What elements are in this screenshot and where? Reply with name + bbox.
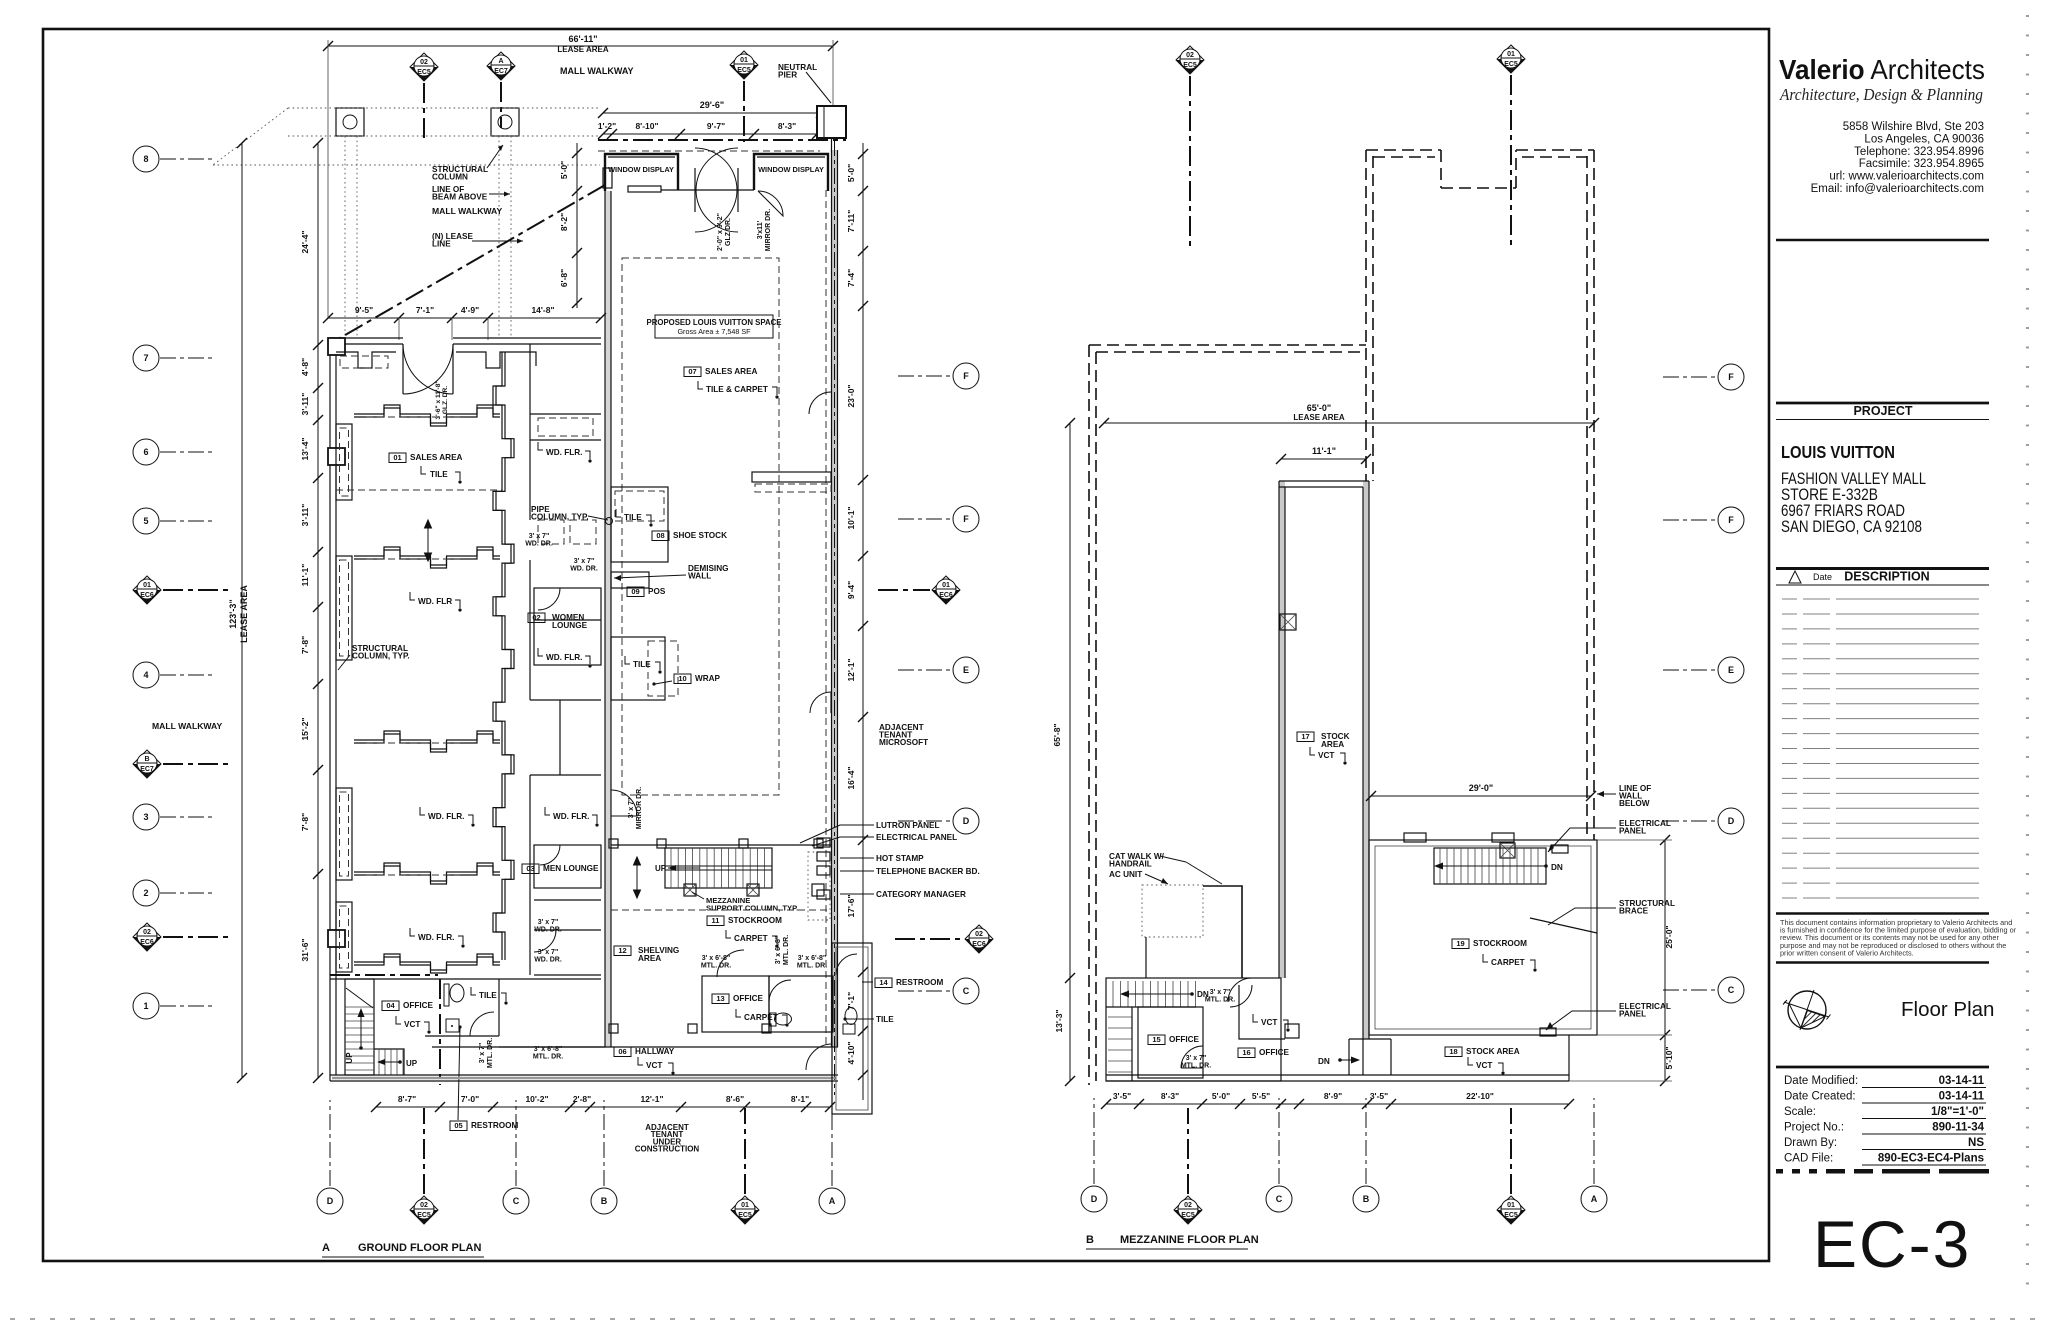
- grid bubble A: [819, 1188, 845, 1214]
- svg-text:SHOE STOCK: SHOE STOCK: [673, 531, 727, 540]
- svg-text:EC7: EC7: [494, 68, 508, 75]
- label 01 sales area: [389, 453, 463, 463]
- interior display wall band mid1: [354, 547, 500, 565]
- svg-text:EC5: EC5: [417, 69, 431, 76]
- svg-text:01: 01: [740, 57, 748, 64]
- svg-text:POS: POS: [648, 587, 666, 596]
- svg-text:CARPET: CARPET: [734, 934, 768, 943]
- svg-text:7'-4": 7'-4": [846, 269, 856, 287]
- svg-text:Telephone: 323.954.8996: Telephone: 323.954.8996: [1854, 146, 1984, 158]
- stair mezz down: [1434, 848, 1546, 884]
- svg-text:65'-0": 65'-0": [1307, 403, 1331, 413]
- label wd.flr 1: [538, 442, 543, 450]
- svg-text:AREA: AREA: [1321, 740, 1344, 749]
- mezzanine edge line: [611, 844, 831, 846]
- corridor wall: [529, 344, 531, 975]
- svg-text:3' x 7": 3' x 7": [538, 919, 559, 926]
- structural column 1: [336, 108, 364, 136]
- svg-text:OFFICE: OFFICE: [733, 994, 764, 1003]
- svg-text:11'-1": 11'-1": [1312, 446, 1336, 456]
- right dimension string: [862, 143, 864, 1100]
- storefront wall / window displays: [605, 154, 828, 191]
- lounge door arcs lower: [534, 930, 556, 952]
- label wd.flr 3: [538, 648, 543, 656]
- svg-text:E: E: [1728, 665, 1734, 675]
- misc closet dashed: [538, 520, 564, 544]
- svg-text:VCT: VCT: [1476, 1061, 1492, 1070]
- svg-text:9'-4": 9'-4": [846, 581, 856, 599]
- heavy lease line storefront: [598, 139, 846, 141]
- grid leader 7: [160, 357, 214, 359]
- svg-text:3' x 6'-8": 3' x 6'-8": [702, 955, 730, 962]
- svg-text:01: 01: [1507, 51, 1515, 58]
- label tile (east top): [625, 656, 630, 664]
- grid bubble 5: [133, 508, 159, 534]
- svg-text:EC7: EC7: [140, 766, 154, 773]
- mezz bottom dimensions: [1106, 1103, 1569, 1105]
- svg-text:CONSTRUCTION: CONSTRUCTION: [635, 1145, 700, 1154]
- svg-text:3'-11": 3'-11": [300, 393, 310, 416]
- svg-text:MIRROR DR.: MIRROR DR.: [636, 787, 643, 829]
- svg-text:Facsimile: 323.954.8965: Facsimile: 323.954.8965: [1859, 158, 1984, 170]
- svg-text:8'-2": 8'-2": [559, 213, 569, 231]
- svg-text:01: 01: [143, 582, 151, 589]
- restroom east small: [769, 976, 833, 1032]
- svg-text:13'-3": 13'-3": [1054, 1009, 1064, 1032]
- west wing exterior walls: [330, 338, 336, 1081]
- svg-text:PANEL: PANEL: [1619, 1009, 1646, 1018]
- svg-text:Date Created:: Date Created:: [1784, 1091, 1856, 1103]
- bottom printer tick strip: [10, 1318, 2035, 1320]
- svg-text:29'-6": 29'-6": [700, 100, 724, 110]
- svg-text:VCT: VCT: [1261, 1018, 1277, 1027]
- svg-text:9'-7": 9'-7": [707, 121, 725, 131]
- svg-text:13'-4": 13'-4": [300, 437, 310, 460]
- grid leader E: [898, 669, 952, 671]
- svg-text:C: C: [1728, 985, 1735, 995]
- svg-text:5'-5": 5'-5": [1252, 1091, 1270, 1101]
- svg-text:RESTROOM: RESTROOM: [471, 1121, 518, 1130]
- bottom exterior wall: [330, 1074, 838, 1076]
- svg-text:D: D: [963, 816, 970, 826]
- label tile: [421, 466, 426, 474]
- svg-text:EC5: EC5: [738, 1212, 752, 1219]
- svg-text:EC6: EC6: [140, 592, 154, 599]
- svg-text:PROJECT: PROJECT: [1853, 404, 1912, 418]
- svg-text:05: 05: [454, 1121, 462, 1130]
- svg-text:COLUMN, TYP.: COLUMN, TYP.: [531, 512, 589, 521]
- label 17 stock area: [1297, 732, 1314, 742]
- section marker B/EC7: [133, 750, 161, 778]
- office 16: [1238, 1048, 1290, 1058]
- entry double doors: [695, 148, 737, 232]
- section marker 01/EC5: [1497, 45, 1525, 73]
- east wall counter fixtures: [752, 472, 831, 482]
- door to adjacent tenant: [810, 692, 831, 713]
- svg-text:03: 03: [526, 864, 534, 873]
- svg-text:66'-11": 66'-11": [569, 34, 598, 44]
- grid bubble 2: [133, 880, 159, 906]
- svg-text:9'-5": 9'-5": [355, 305, 373, 315]
- svg-text:MEN LOUNGE: MEN LOUNGE: [543, 864, 599, 873]
- svg-text:7'-8": 7'-8": [300, 636, 310, 654]
- mirror door: [758, 191, 783, 216]
- svg-text:BRACE: BRACE: [1619, 906, 1649, 915]
- bottom band walls: [330, 974, 438, 976]
- grid bubble 1: [133, 993, 159, 1019]
- grid leader C: [898, 990, 952, 992]
- stair to mezzanine: [665, 848, 772, 888]
- svg-text:8: 8: [143, 154, 148, 164]
- grid bubble F: [953, 506, 979, 532]
- dimension 11'-1: [1281, 458, 1366, 460]
- hallway exit arc: [806, 1044, 832, 1070]
- svg-text:WD. FLR: WD. FLR: [418, 597, 452, 606]
- dimension 25'-0 right: [1664, 840, 1666, 1081]
- grid bubble B: [591, 1188, 617, 1214]
- grid bubble D: [1081, 1186, 1107, 1212]
- section marker A/EC7: [487, 52, 515, 80]
- svg-text:7'-11": 7'-11": [846, 210, 856, 233]
- svg-text:DN: DN: [1551, 863, 1563, 872]
- office 13: [702, 976, 769, 1032]
- grid dashdot x440: [439, 979, 441, 1085]
- interior display wall band mid3: [354, 863, 500, 881]
- floor transition arrows: [425, 520, 432, 561]
- label 14 restroom: [875, 978, 943, 988]
- svg-text:3'-5": 3'-5": [1370, 1091, 1388, 1101]
- svg-text:18: 18: [1449, 1047, 1457, 1056]
- grid bubble F: [953, 363, 979, 389]
- svg-text:WD. DR.: WD. DR.: [525, 540, 553, 547]
- svg-text:D: D: [1728, 816, 1735, 826]
- svg-text:10: 10: [678, 674, 686, 683]
- svg-text:19: 19: [1456, 939, 1464, 948]
- svg-text:5'-10": 5'-10": [1664, 1046, 1674, 1069]
- svg-text:MTL. DR.: MTL. DR.: [701, 962, 731, 969]
- svg-text:B: B: [1086, 1234, 1094, 1246]
- svg-text:TILE: TILE: [624, 513, 642, 522]
- svg-text:8'-7": 8'-7": [398, 1094, 416, 1104]
- svg-text:OFFICE: OFFICE: [403, 1001, 434, 1010]
- svg-text:GLZ. DR.: GLZ. DR.: [442, 386, 449, 414]
- svg-text:A: A: [829, 1196, 836, 1206]
- svg-text:F: F: [963, 514, 969, 524]
- stockroom 19 walls: [1369, 840, 1597, 1035]
- label 19 stockroom: [1452, 939, 1527, 949]
- svg-text:LOUIS VUITTON: LOUIS VUITTON: [1781, 442, 1895, 462]
- mezzanine support columns: [684, 884, 696, 896]
- svg-text:TELEPHONE BACKER BD.: TELEPHONE BACKER BD.: [876, 867, 980, 876]
- demising wall: [605, 191, 611, 1047]
- svg-text:22'-10": 22'-10": [1466, 1091, 1494, 1101]
- svg-text:EC5: EC5: [1504, 61, 1518, 68]
- svg-text:1/8"=1'-0": 1/8"=1'-0": [1931, 1106, 1984, 1118]
- svg-text:5'-0": 5'-0": [846, 164, 856, 182]
- ac unit dotted: [1142, 885, 1203, 937]
- svg-text:01: 01: [741, 1202, 749, 1209]
- svg-text:5: 5: [143, 516, 148, 526]
- svg-text:02: 02: [1186, 52, 1194, 59]
- svg-text:5858 Wilshire Blvd, Ste 203: 5858 Wilshire Blvd, Ste 203: [1843, 121, 1984, 133]
- svg-text:12'-1": 12'-1": [640, 1094, 663, 1104]
- svg-text:17: 17: [1301, 732, 1309, 741]
- svg-text:07: 07: [688, 367, 696, 376]
- svg-text:01: 01: [393, 453, 401, 462]
- grid leader 2: [160, 892, 214, 894]
- svg-text:MALL WALKWAY: MALL WALKWAY: [560, 66, 634, 76]
- svg-text:WINDOW DISPLAY: WINDOW DISPLAY: [758, 165, 824, 174]
- svg-text:url: www.valerioarchitects.com: url: www.valerioarchitects.com: [1829, 171, 1984, 183]
- svg-text:HOT STAMP: HOT STAMP: [876, 854, 924, 863]
- mezz stair top: [1113, 981, 1196, 1007]
- dashed openings: [366, 416, 460, 418]
- mezz office block walls: [1106, 978, 1281, 1081]
- svg-text:Valerio Architects: Valerio Architects: [1779, 54, 1985, 85]
- svg-text:14: 14: [879, 978, 888, 987]
- svg-text:WD. FLR.: WD. FLR.: [546, 653, 582, 662]
- section marker 02/EC6: [965, 925, 993, 953]
- svg-text:3' x 7": 3' x 7": [574, 558, 595, 565]
- svg-text:8'-1": 8'-1": [791, 1094, 809, 1104]
- svg-text:A: A: [322, 1242, 330, 1254]
- svg-text:29'-0": 29'-0": [1469, 783, 1493, 793]
- svg-text:EC5: EC5: [1181, 1212, 1195, 1219]
- svg-text:ELECTRICAL PANEL: ELECTRICAL PANEL: [876, 833, 957, 842]
- svg-text:GLZ DR.: GLZ DR.: [725, 218, 732, 246]
- catwalk lines: [1203, 886, 1242, 978]
- svg-text:NS: NS: [1968, 1137, 1984, 1149]
- dimension string 9'-5 / 7'-1 / 4'-9 / 14'-8: [328, 317, 601, 319]
- svg-text:6: 6: [143, 447, 148, 457]
- svg-text:3' x 7": 3' x 7": [538, 949, 559, 956]
- column box 17: [1280, 614, 1296, 630]
- svg-text:F: F: [1728, 372, 1734, 382]
- column box 19: [1500, 843, 1515, 858]
- svg-text:5'-0": 5'-0": [1212, 1091, 1230, 1101]
- door arcs bottom band: [470, 1012, 494, 1036]
- svg-text:10'-2": 10'-2": [525, 1094, 548, 1104]
- label 12 shelving area: [614, 946, 631, 956]
- svg-text:12: 12: [618, 946, 626, 955]
- svg-text:7'-8": 7'-8": [300, 813, 310, 831]
- svg-text:LOUNGE: LOUNGE: [552, 621, 588, 630]
- svg-text:13: 13: [716, 994, 724, 1003]
- svg-text:COLUMN: COLUMN: [432, 172, 468, 181]
- svg-text:VCT: VCT: [646, 1061, 662, 1070]
- storefront depth dims: [576, 143, 578, 308]
- left dimension string: [317, 143, 319, 1078]
- svg-text:WD. DR.: WD. DR.: [534, 956, 562, 963]
- svg-text:3' x 7": 3' x 7": [628, 798, 635, 819]
- grid leader D: [898, 820, 952, 822]
- display niches top: [336, 352, 536, 368]
- svg-text:4'-10": 4'-10": [846, 1041, 856, 1064]
- section marker 02/EC5: [410, 1196, 438, 1224]
- display piers left wall: [336, 424, 352, 500]
- svg-text:D: D: [1091, 1194, 1098, 1204]
- svg-text:VCT: VCT: [404, 1020, 420, 1029]
- storefront sub dimensions: [603, 133, 817, 135]
- svg-text:MICROSOFT: MICROSOFT: [879, 738, 928, 747]
- svg-text:EC-3: EC-3: [1813, 1207, 1971, 1281]
- svg-text:WD. DR.: WD. DR.: [534, 926, 562, 933]
- svg-text:AC UNIT: AC UNIT: [1109, 870, 1142, 879]
- grid bubble 8: [133, 146, 159, 172]
- svg-text:02: 02: [532, 613, 540, 622]
- svg-text:B: B: [1363, 1194, 1370, 1204]
- svg-text:F: F: [1728, 515, 1734, 525]
- svg-text:8'-9": 8'-9": [1324, 1091, 1342, 1101]
- svg-text:SUPPORT COLUMN, TYP.: SUPPORT COLUMN, TYP.: [706, 903, 798, 912]
- title: PROJECT header: [1776, 402, 1989, 405]
- svg-text:4'-8": 4'-8": [300, 358, 310, 376]
- svg-text:01: 01: [942, 582, 950, 589]
- svg-text:Email: info@valerioarchitects.: Email: info@valerioarchitects.com: [1811, 183, 1984, 195]
- svg-text:TILE: TILE: [430, 470, 448, 479]
- svg-text:TILE: TILE: [876, 1015, 894, 1024]
- svg-text:15: 15: [1152, 1035, 1160, 1044]
- info table: [1776, 1066, 1989, 1069]
- svg-text:Date Modified:: Date Modified:: [1784, 1075, 1858, 1087]
- svg-text:EC5: EC5: [417, 1212, 431, 1219]
- mezz lease dashed outline: [1366, 150, 1594, 188]
- stock area 18 strip: [1349, 1039, 1369, 1075]
- suite bottom wall columns: [609, 1024, 618, 1033]
- svg-text:65'-8": 65'-8": [1052, 723, 1062, 746]
- grid bubble E: [1718, 657, 1744, 683]
- svg-text:08: 08: [656, 531, 664, 540]
- svg-text:3' x 7": 3' x 7": [1210, 989, 1231, 996]
- svg-text:11'-1": 11'-1": [300, 564, 310, 587]
- svg-text:D: D: [327, 1196, 334, 1206]
- svg-text:6'-8": 6'-8": [559, 269, 569, 287]
- svg-text:5'-0": 5'-0": [559, 161, 569, 179]
- title: separator rule: [1776, 239, 1989, 242]
- label 11 stockroom: [707, 916, 782, 926]
- svg-text:BELOW: BELOW: [1619, 799, 1650, 808]
- svg-text:CARPET: CARPET: [744, 1013, 778, 1022]
- svg-text:3' x 6'-8": 3' x 6'-8": [775, 936, 782, 964]
- revision table rows: [1782, 599, 1979, 898]
- svg-text:04: 04: [386, 1001, 395, 1010]
- svg-text:C: C: [963, 986, 970, 996]
- svg-text:Architecture, Design & Plannin: Architecture, Design & Planning: [1779, 85, 1983, 104]
- west entry double doors: [403, 344, 453, 394]
- svg-text:B: B: [601, 1196, 608, 1206]
- svg-text:890-11-34: 890-11-34: [1932, 1122, 1984, 1134]
- svg-text:C: C: [513, 1196, 520, 1206]
- svg-text:WD. FLR.: WD. FLR.: [553, 812, 589, 821]
- svg-text:16: 16: [1242, 1048, 1250, 1057]
- svg-text:Scale:: Scale:: [1784, 1106, 1816, 1118]
- svg-text:SALES AREA: SALES AREA: [410, 453, 463, 462]
- east exterior wall: [832, 150, 838, 1047]
- svg-text:BEAM ABOVE: BEAM ABOVE: [432, 192, 488, 201]
- svg-text:12'-1": 12'-1": [846, 658, 856, 681]
- svg-text:8'-10": 8'-10": [635, 121, 658, 131]
- grid leader 8: [160, 158, 214, 160]
- svg-text:11: 11: [712, 916, 720, 925]
- north arrow symbol: [1783, 990, 1831, 1030]
- svg-text:10'-1": 10'-1": [846, 506, 856, 529]
- grid leader 1: [160, 1005, 214, 1007]
- grid bubble D: [953, 808, 979, 834]
- svg-text:B: B: [144, 756, 149, 763]
- svg-text:Los Angeles, CA 90036: Los Angeles, CA 90036: [1864, 133, 1984, 145]
- grid bubble 6: [133, 439, 159, 465]
- svg-text:SAN DIEGO, CA 92108: SAN DIEGO, CA 92108: [1781, 518, 1922, 536]
- stair mini: [374, 1049, 404, 1075]
- stair lower left: [345, 979, 374, 1075]
- section marker 01/EC5: [731, 1196, 759, 1224]
- grid bubble F: [1718, 507, 1744, 533]
- grid bubble D: [1718, 808, 1744, 834]
- grid bubble F: [1718, 364, 1744, 390]
- svg-text:3' x 6'-8": 3' x 6'-8": [798, 955, 826, 962]
- men lounge 03: [534, 845, 601, 888]
- sheet border frame: [43, 29, 1769, 1261]
- svg-text:17'-6": 17'-6": [846, 894, 856, 917]
- svg-text:TILE: TILE: [633, 660, 651, 669]
- label tile (shoe): [616, 509, 621, 517]
- svg-text:LUTRON PANEL: LUTRON PANEL: [876, 821, 940, 830]
- svg-text:PROPOSED LOUIS VUITTON SPACE: PROPOSED LOUIS VUITTON SPACE: [647, 318, 782, 327]
- dimension 123'-3 lease area: [241, 143, 243, 1078]
- svg-text:2: 2: [143, 888, 148, 898]
- svg-text:02: 02: [420, 59, 428, 66]
- svg-text:A: A: [1591, 1194, 1598, 1204]
- svg-text:WD. FLR.: WD. FLR.: [546, 448, 582, 457]
- svg-text:C: C: [1276, 1194, 1283, 1204]
- dashed ceiling rect east wing: [622, 258, 779, 795]
- svg-text:CAD File:: CAD File:: [1784, 1153, 1833, 1165]
- svg-text:UP: UP: [655, 864, 667, 873]
- svg-text:GROUND FLOOR PLAN: GROUND FLOOR PLAN: [358, 1242, 481, 1254]
- proposed space note box: [655, 315, 773, 338]
- label wd.flr 6: [410, 928, 415, 936]
- striped scale bar: [1776, 1169, 1989, 1174]
- mezz stair side treads: [1108, 1017, 1132, 1072]
- svg-text:MALL WALKWAY: MALL WALKWAY: [432, 206, 502, 216]
- dimension 29'-6: [603, 112, 821, 114]
- svg-text:03-14-11: 03-14-11: [1939, 1091, 1985, 1103]
- svg-text:8'-6": 8'-6": [726, 1094, 744, 1104]
- svg-text:3' x 7": 3' x 7": [1186, 1055, 1207, 1062]
- svg-text:LEASE AREA: LEASE AREA: [1293, 413, 1344, 422]
- svg-text:06: 06: [618, 1047, 626, 1056]
- restroom 14 wing: [832, 943, 872, 1114]
- svg-text:3'-11": 3'-11": [300, 504, 310, 527]
- svg-text:7'-1": 7'-1": [416, 305, 434, 315]
- svg-text:1'-2": 1'-2": [598, 121, 616, 131]
- svg-text:WRAP: WRAP: [695, 674, 721, 683]
- dimension 65'-8 left: [1069, 423, 1071, 1081]
- svg-text:890-EC3-EC4-Plans: 890-EC3-EC4-Plans: [1878, 1153, 1984, 1165]
- grid bubble C: [953, 978, 979, 1004]
- svg-text:WD. FLR.: WD. FLR.: [418, 933, 454, 942]
- svg-text:EC5: EC5: [1504, 1212, 1518, 1219]
- grid bubble 3: [133, 804, 159, 830]
- label 05 restroom leader: [458, 1027, 460, 1120]
- grid leader 3: [160, 816, 214, 818]
- svg-text:WD. DR.: WD. DR.: [570, 565, 598, 572]
- svg-text:STOCKROOM: STOCKROOM: [1473, 939, 1527, 948]
- wall columns: [328, 338, 345, 355]
- grid leader 4: [160, 674, 214, 676]
- svg-text:4'-9": 4'-9": [461, 305, 479, 315]
- grid bubble C: [503, 1188, 529, 1214]
